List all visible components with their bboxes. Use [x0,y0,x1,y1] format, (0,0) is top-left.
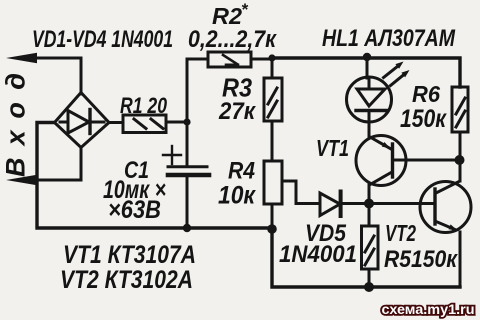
capacitor C1 [163,146,209,175]
node input arrow bottom [6,175,37,185]
svg-text:VT1 КТ3107А: VT1 КТ3107А [63,241,196,269]
wire vertical plus bus [186,59,189,166]
svg-text:VT2: VT2 [385,220,416,246]
wire R4 to rail [271,204,274,228]
wire VT2 emitter to bottom rail [459,232,462,287]
wire bridge plus to R1 [109,121,123,124]
svg-text:VT1: VT1 [316,135,349,161]
wire VT1 base lead [394,159,455,162]
node VT1 base/R6/VT2 collector [455,155,465,165]
wire R6 to node [459,132,462,156]
resistor R4 [264,161,282,204]
wire bridge minus to lower-left rail [37,123,272,229]
node VT1 collector junction [364,199,374,209]
svg-text:VT2 КТ3102А: VT2 КТ3102А [60,266,193,294]
diode VD5 [320,192,341,217]
wire top rail [272,58,460,87]
svg-text:1N4001: 1N4001 [279,241,357,268]
svg-text:VD1-VD4 1N4001: VD1-VD4 1N4001 [32,26,173,53]
node R1/C1/R2 junction [183,118,190,125]
svg-text:R6: R6 [412,81,440,107]
wire R3 to R4 [271,121,274,161]
svg-text:150к: 150к [400,105,447,133]
node R5 bottom junction [364,282,374,292]
wire R4 tap to VD5 [282,181,320,204]
wire R5 to bottom rail [368,269,371,287]
wire top input line [28,57,81,60]
wire VD5 to node [342,202,366,205]
wire to R2 [187,58,208,61]
svg-text:10к: 10к [218,182,256,210]
node C1 ground junction [183,224,191,232]
resistor R1 [123,115,166,133]
wire mid rail drop and bottom rail [272,228,460,287]
wire R1 to node [166,121,187,124]
node HL1 top junction [363,53,371,61]
diode bridge VD1-VD4 [55,93,110,148]
resistor R6 [452,87,468,132]
wire node to VT2 base [369,202,433,205]
resistor R5 [362,226,379,269]
svg-text:R1 20: R1 20 [120,93,168,118]
node R4 bottom junction [267,224,277,234]
LED emission arrows [384,62,410,86]
wire bottom input line [28,179,81,182]
node R2/R3 junction [268,54,275,61]
svg-text:схема.my1.ru: схема.my1.ru [382,302,475,317]
wire R3 top lead [271,58,274,78]
LED HL1 [347,58,392,136]
wire C1 to rail [186,177,189,228]
transistor VT1 [356,136,406,186]
svg-text:R4: R4 [228,158,255,185]
svg-text:×63В: ×63В [108,196,161,224]
resistor R2 (trimmer) [208,52,251,67]
wire node down to R5 [368,204,371,227]
diode inside bridge [60,110,104,134]
svg-text:R5150к: R5150к [384,246,459,273]
node input arrow top [6,53,37,63]
wire node down to VT2 collector [459,160,462,181]
wire VT1 emitter up to LED [368,123,371,136]
wire node up to VT1 [368,184,371,204]
svg-text:27к: 27к [218,98,257,125]
resistor R3 [264,78,282,121]
wire bottom input rise to bridge [80,147,83,180]
svg-text:0,2...2,7к: 0,2...2,7к [188,26,278,53]
wire top input drop to bridge [80,58,83,94]
transistor VT2 [420,182,471,233]
svg-text:HL1 АЛ307АМ: HL1 АЛ307АМ [322,25,456,52]
wire R2 to node [251,58,272,61]
